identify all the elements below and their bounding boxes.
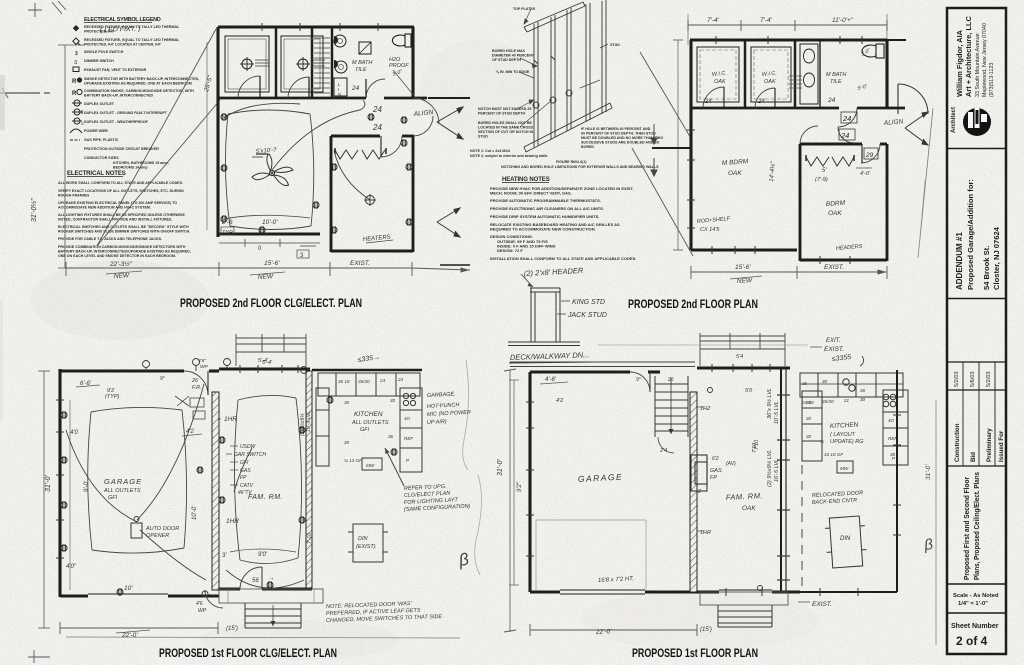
scan smudges: [30, 260, 210, 340]
svg-text:EXIST.: EXIST.: [350, 260, 370, 267]
svg-text:2 of 4: 2 of 4: [956, 634, 988, 648]
outer wall left: [216, 27, 219, 237]
svg-text:OAK: OAK: [828, 210, 842, 217]
svg-text:22'-0': 22'-0': [121, 632, 138, 639]
bath door arc TR: [838, 108, 857, 127]
svg-text:4'6: 4'6: [196, 601, 203, 607]
svg-text:POWER WIRE: POWER WIRE: [84, 129, 109, 133]
kitchen left column BR: [802, 391, 822, 461]
svg-text:KING STD: KING STD: [572, 299, 605, 306]
famrm right hatched wall BL: [306, 371, 312, 589]
outer wall right upper (bath): [411, 27, 414, 98]
heating notes text: [490, 186, 636, 261]
svg-text:(15'): (15'): [226, 626, 238, 632]
svg-text:OAK: OAK: [764, 79, 776, 85]
svg-text:46"TV: 46"TV: [238, 490, 252, 496]
svg-text:FAM. RM.: FAM. RM.: [248, 494, 283, 501]
svg-text:NOTCH MUST NOT EXCEED 25: NOTCH MUST NOT EXCEED 25: [478, 107, 531, 111]
porch slab BR: [700, 592, 788, 605]
window marks TR bottom walls: [712, 246, 850, 264]
fold cross top left: [28, 3, 42, 17]
svg-text:56: 56: [252, 578, 259, 584]
closet divider wall 1: [275, 27, 278, 98]
famrm right wall window dashes BR: [777, 395, 790, 580]
svg-text:FP: FP: [710, 475, 717, 481]
svg-text:5'4: 5'4: [736, 354, 743, 360]
din table BL: [348, 524, 388, 562]
svg-text:ALL OUTLETS: ALL OUTLETS: [351, 420, 389, 426]
section arrows mid gap: [651, 124, 657, 176]
island BR: [837, 461, 853, 473]
svg-text:BATTERY BACK-UP, INTERCONNECTE: BATTERY BACK-UP, INTERCONNECTED/UPGRADE …: [58, 250, 191, 254]
svg-text:Art + Architecture, LLC: Art + Architecture, LLC: [964, 16, 973, 97]
svg-text:21: 21: [843, 398, 850, 403]
svg-text:30: 30: [806, 416, 812, 421]
svg-text:EXIST.: EXIST.: [824, 264, 844, 271]
svg-text:GARAGE: GARAGE: [104, 477, 142, 486]
garage interior faint storage line BR: [536, 520, 646, 590]
svg-text:MW: MW: [366, 463, 375, 468]
bottom dim line TR: [691, 266, 887, 279]
svg-text:36/30: 36/30: [358, 379, 370, 384]
svg-text:F.R.: F.R.: [192, 385, 202, 391]
svg-text:JACK STUD: JACK STUD: [567, 312, 607, 319]
bedroom door arc: [381, 136, 402, 157]
exit arc bottom BL: [205, 590, 223, 608]
svg-text:WP: WP: [198, 608, 207, 614]
svg-text:DUPLEX OUTLET: DUPLEX OUTLET: [84, 102, 115, 106]
svg-text:36 18: 36 18: [338, 379, 350, 384]
divider under dates row: [947, 389, 1006, 391]
svg-text:10'-5 LVL: 10'-5 LVL: [774, 401, 780, 424]
ceiling wire loop mbdrm: [225, 110, 313, 230]
svg-text:ACCOMMODATE NEW ADDITION AND H: ACCOMMODATE NEW ADDITION AND HVAC SYSTEM…: [58, 206, 151, 210]
entry door arc BR: [630, 372, 650, 392]
leader line to TR plan upper: [640, 52, 692, 140]
svg-text:OAK: OAK: [742, 505, 756, 512]
svg-text:16'-5 LVL: 16'-5 LVL: [774, 459, 780, 482]
svg-text:10'-0': 10'-0': [192, 505, 198, 520]
hatch strip stairs: [314, 38, 330, 93]
svg-text:30: 30: [344, 400, 350, 405]
divider under scale section: [947, 612, 1006, 614]
garage window marks BR: [526, 402, 534, 556]
svg-text:ROCKER SWITCHES AND SLIDE DIMM: ROCKER SWITCHES AND SLIDE DIMMER SWITCHE…: [58, 230, 190, 234]
svg-text:(EXIST): (EXIST): [356, 544, 376, 550]
svg-text:TOP PLATES: TOP PLATES: [513, 7, 536, 11]
closet zigzag TR: [806, 157, 854, 166]
bath wall: [331, 27, 334, 98]
svg-text:EXIT.: EXIT.: [826, 338, 841, 344]
stud 2: [551, 15, 555, 139]
bottom dim line BL: [60, 622, 460, 638]
date column dividers: [962, 362, 964, 466]
svg-text:24: 24: [704, 99, 712, 105]
range circles BR: [883, 394, 889, 400]
closet1 door arc: [238, 76, 260, 98]
bath divider: [819, 40, 821, 108]
svg-text:ALL OUTLETS: ALL OUTLETS: [103, 488, 141, 494]
refer arrow BL: [385, 448, 404, 486]
entry door arc garage BL: [184, 371, 208, 395]
bottom wall ticks BR: [726, 588, 858, 596]
right exist wall BR: [896, 370, 898, 592]
svg-text:EXIST.: EXIST.: [824, 346, 844, 353]
svg-text:36: 36: [388, 434, 394, 439]
svg-text:DUPLEX OUTLET - GROUND FAULT I: DUPLEX OUTLET - GROUND FAULT INTERRUPT: [84, 111, 168, 115]
svg-text:24: 24: [840, 131, 849, 140]
svg-text:OAK: OAK: [728, 170, 742, 177]
svg-text:31'-0': 31'-0': [45, 475, 52, 492]
svg-text:LOCATED IN THE SAME CROSS: LOCATED IN THE SAME CROSS: [478, 126, 534, 130]
famrm top wall BL: [219, 368, 310, 371]
window marks garage left wall: [56, 400, 64, 558]
linen closet: [334, 78, 347, 96]
famrm bottom door arc BL: [240, 567, 262, 589]
small panel boxes near entry: [175, 396, 205, 419]
svg-text:2: 2: [697, 489, 701, 495]
vanity basin 2: [335, 61, 347, 73]
1hr hatched wall BL: [212, 392, 219, 590]
svg-text:COMBINATION SMOKE, CARBON MONO: COMBINATION SMOKE, CARBON MONOXIDE DETEC…: [84, 89, 194, 93]
main room bottom wall TR: [691, 248, 797, 251]
notch marks: [534, 56, 555, 64]
receptacles TL plan: [221, 113, 227, 120]
left wall: [58, 369, 61, 597]
svg-text:William Figdor, AIA: William Figdor, AIA: [955, 29, 964, 97]
garage door opening line: [88, 593, 168, 595]
svg-text:¼: ¼: [820, 439, 824, 444]
svg-text:UP AIR): UP AIR): [427, 419, 447, 426]
wic divider 2: [794, 40, 797, 108]
closet2 door arc: [288, 77, 309, 98]
svg-text:PROVIDE FOR CABLE T.V. JACKS A: PROVIDE FOR CABLE T.V. JACKS AND TELEPHO…: [58, 237, 162, 241]
bdrm TR walls: [799, 144, 802, 261]
receptacle marks BR minimal: [708, 388, 763, 591]
svg-text:4'-0': 4'-0': [860, 171, 871, 177]
title block outer frame: [947, 8, 1006, 654]
bath door arc: [366, 79, 385, 98]
svg-text:29: 29: [865, 152, 874, 159]
svg-text:(TYP): (TYP): [105, 394, 120, 400]
svg-text:CATV: CATV: [240, 483, 254, 489]
svg-text:26/30: 26/30: [821, 399, 834, 404]
famrm window marks BR: [712, 364, 770, 372]
svg-text:GAS PIPE, PLASTIC: GAS PIPE, PLASTIC: [84, 138, 119, 142]
svg-text:ONE ON EACH LEVEL AND SMOKE DE: ONE ON EACH LEVEL AND SMOKE DETECTOR IN …: [58, 254, 176, 258]
crease curve middle: [463, 360, 469, 470]
svg-text:INSTALLATION SHALL CONFORM TO: INSTALLATION SHALL CONFORM TO ALL STATE …: [490, 256, 636, 261]
svg-text:OPENER: OPENER: [146, 533, 169, 539]
svg-text:Issued For: Issued For: [998, 430, 1005, 462]
fireplace BR: [691, 455, 707, 491]
corner diag marks: [52, 1, 66, 14]
svg-text:UPGRADE EXISTING AS REQUIRED,: UPGRADE EXISTING AS REQUIRED, ONE AT EAC…: [84, 82, 192, 86]
header frame detail: [508, 288, 580, 346]
svg-text:30: 30: [822, 379, 828, 384]
svg-text:4'0: 4'0: [70, 430, 78, 436]
svg-text:Plans, Proposed Ceiling/Elect.: Plans, Proposed Ceiling/Elect. Plans: [974, 472, 981, 580]
svg-text:15'-6': 15'-6': [264, 260, 280, 267]
stairs top BR: [655, 376, 688, 437]
svg-text:WP: WP: [200, 364, 209, 370]
svg-text:TYP: TYP: [222, 230, 233, 236]
switch stack labels BL: [234, 444, 266, 496]
svg-text:R: R: [72, 91, 77, 97]
svg-text:UPGRADE EXISTING ELECTRICAL PA: UPGRADE EXISTING ELECTRICAL PANEL (TO 20…: [58, 201, 177, 205]
svg-text:KITCHEN, BATHROOMS 15 amp,: KITCHEN, BATHROOMS 15 amp,: [113, 161, 169, 165]
svg-text:CX 14'5: CX 14'5: [700, 227, 720, 233]
hall door arc TL right: [413, 98, 439, 124]
wic1 door arc: [703, 87, 724, 108]
bedroom right wall: [412, 136, 415, 252]
stud 4: [586, 3, 590, 122]
svg-text:7'-10: 7'-10: [307, 533, 313, 544]
top wall tick marks TL: [262, 23, 378, 31]
svg-text:DIMMER SWITCH: DIMMER SWITCH: [84, 59, 114, 63]
svg-text:Closter, NJ 07624: Closter, NJ 07624: [992, 226, 1001, 290]
bottom wall right section BR: [800, 591, 897, 593]
svg-text:STUD: STUD: [610, 43, 620, 47]
svg-text:24: 24: [372, 123, 382, 132]
legend symbols column: [70, 25, 84, 140]
stud 5: [602, 0, 606, 114]
svg-text:R: R: [72, 79, 77, 85]
svg-text:6'2: 6'2: [712, 456, 719, 462]
svg-text:9°: 9°: [636, 377, 641, 383]
svg-text:31'-0': 31'-0': [497, 459, 504, 476]
wire arc left: [224, 103, 300, 118]
entry door arc right TR: [898, 84, 928, 114]
svg-text:24: 24: [379, 378, 386, 383]
closet divider wall 2: [311, 27, 314, 98]
svg-text:STUD: STUD: [478, 135, 488, 139]
refer note BL: [404, 484, 471, 513]
counter labels BL: [338, 377, 414, 468]
svg-text:PROVIDE DRIP SYSTEM AUTOMATIC: PROVIDE DRIP SYSTEM AUTOMATIC HUMIDIFIER…: [490, 214, 599, 219]
svg-text:30: 30: [806, 434, 812, 439]
svg-text:10'-0': 10'-0': [262, 219, 278, 226]
svg-text:REF: REF: [404, 436, 414, 441]
svg-text:GAS: GAS: [240, 468, 251, 474]
svg-text:4'2: 4'2: [186, 429, 194, 435]
svg-text:PROPOSED 1st FLOOR CLG/ELECT.: PROPOSED 1st FLOOR CLG/ELECT. PLAN: [159, 646, 337, 660]
deck above famrm BR: [700, 333, 785, 366]
svg-text:NOTE 1: Cut = 2x4 MAX: NOTE 1: Cut = 2x4 MAX: [470, 149, 511, 153]
svg-text:2'-6: 2'-6: [221, 219, 233, 226]
svg-text:( LED FIXT. ): ( LED FIXT. ): [100, 26, 141, 34]
svg-text:DUPLEX OUTLET - WEATHERPROOF: DUPLEX OUTLET - WEATHERPROOF: [84, 120, 149, 124]
leader line from legend to plan lower: [97, 100, 220, 246]
electrical notes paragraphs: [58, 181, 191, 258]
window marks famrm top BL: [240, 365, 298, 373]
svg-text:EXIST.: EXIST.: [812, 601, 832, 608]
svg-text:PROOF: PROOF: [389, 63, 409, 69]
framing leader arrows: [515, 9, 608, 127]
svg-text:PERCENT OF STUD DEPTH: PERCENT OF STUD DEPTH: [478, 112, 526, 116]
svg-text:30: 30: [860, 397, 866, 402]
legend rows text: [84, 25, 199, 170]
svg-text:ADDENDUM #1: ADDENDUM #1: [955, 232, 964, 290]
famrm walls BR: [697, 368, 800, 592]
svg-text:Preliminary: Preliminary: [986, 428, 993, 462]
svg-text:7'10: 7'10: [752, 442, 758, 453]
stud 3: [567, 8, 571, 131]
famrm bottom wall BL: [219, 588, 240, 591]
stairs bottom BR: [718, 605, 772, 627]
svg-text:S: S: [81, 121, 84, 126]
svg-text:(7'-9): (7'-9): [815, 177, 828, 183]
svg-text:10'-3 LVL: 10'-3 LVL: [306, 411, 312, 432]
kitchen top counter BL: [316, 373, 422, 472]
closet zigzag TL: [335, 150, 385, 159]
famrm wiring loop BL: [226, 395, 304, 588]
svg-text:BDRM: BDRM: [826, 200, 846, 208]
kitchen right column BR: [883, 390, 908, 465]
svg-text:PROTECTED, IHT LOCATED AT CENT: PROTECTED, IHT LOCATED AT CENTER, IHT: [84, 43, 162, 47]
closet2 light fixture: [296, 57, 325, 71]
svg-text:SUCCESSIVE STUDS ARE DOUBLED A: SUCCESSIVE STUDS ARE DOUBLED AND SO: [581, 141, 660, 145]
svg-text:TILE: TILE: [355, 67, 367, 73]
svg-text:1/4" = 1'-0": 1/4" = 1'-0": [958, 601, 988, 607]
framing labels: [470, 7, 663, 169]
svg-text:4'6": 4'6": [198, 358, 206, 364]
svg-text:PROTECTION OUTSIDE CIRCUIT BRE: PROTECTION OUTSIDE CIRCUIT BREAKER: [84, 147, 159, 151]
svg-text:KITCHEN: KITCHEN: [354, 411, 383, 418]
svg-text:BORED: BORED: [581, 145, 594, 149]
garage wiring loop BL: [66, 384, 206, 580]
bedroom ceiling outlet: [364, 194, 376, 206]
svg-text:30: 30: [806, 400, 812, 405]
deck rail above famrm BL: [236, 334, 306, 366]
inner dim line TL left: [206, 42, 208, 230]
svg-text:PROVIDE ELECTRONIC AIR CLEANER: PROVIDE ELECTRONIC AIR CLEANERS ON ALL A…: [490, 206, 604, 211]
small arcs at stair base BR: [658, 437, 674, 453]
bored hole marks: [533, 102, 539, 108]
svg-text:Maplewood, New Jersey 07040: Maplewood, New Jersey 07040: [982, 23, 988, 97]
svg-text:RECESSED FIXTURE, EQUAL TO TAL: RECESSED FIXTURE, EQUAL TO TALLY LED THE…: [84, 38, 180, 42]
svg-text:5/2/03: 5/2/03: [954, 371, 960, 387]
svg-text:1HR: 1HR: [226, 518, 239, 525]
svg-text:PROVIDE COMBINATION CARBON MON: PROVIDE COMBINATION CARBON MONOXIDE/SMOK…: [58, 245, 186, 249]
svg-text:9'-0': 9'-0': [84, 480, 90, 492]
svg-text:DESIGN: 72 F: DESIGN: 72 F: [497, 248, 523, 253]
wic1 inner rect: [697, 47, 739, 102]
wall stub right of TL plan: [428, 97, 470, 99]
svg-text:30: 30: [344, 440, 350, 445]
walkway lines above garage BR: [510, 362, 695, 367]
svg-text:24: 24: [351, 85, 360, 92]
svg-text:(973)513-1123: (973)513-1123: [989, 63, 995, 97]
svg-text:5'-4': 5'-4': [262, 360, 273, 366]
arrow cross lower right TL: [437, 208, 460, 237]
svg-text:GFI: GFI: [108, 495, 118, 501]
closet1 inner rect: [225, 36, 269, 92]
svg-text:22'-3½": 22'-3½": [109, 260, 133, 268]
relocated note BL: [326, 601, 443, 624]
svg-text:26: 26: [667, 377, 674, 383]
bdrm door arc TR: [861, 144, 880, 163]
svg-text:⅝ IN. MIN TO EDGE: ⅝ IN. MIN TO EDGE: [496, 70, 530, 74]
1hr hatched wall BR: [690, 392, 697, 592]
leader line to TR plan lower: [632, 148, 693, 256]
svg-text:Scale - As Noted: Scale - As Noted: [953, 593, 999, 599]
svg-text:DIN: DIN: [358, 536, 368, 542]
svg-text:OF STUD DEPTH: OF STUD DEPTH: [492, 58, 521, 62]
svg-text:PROPOSED 2nd FLOOR PLAN: PROPOSED 2nd FLOOR PLAN: [628, 297, 758, 311]
svg-text:4O: 4O: [888, 418, 895, 423]
svg-text:11'-0'+": 11'-0'+": [832, 17, 854, 24]
bottom left fold mark: [28, 650, 50, 663]
svg-text:4'2: 4'2: [556, 398, 563, 404]
island mw BL: [362, 458, 382, 470]
svg-text:4'-6': 4'-6': [545, 377, 557, 383]
arcs to opener: [66, 384, 206, 580]
svg-text:UPDATE) RG: UPDATE) RG: [830, 439, 864, 445]
svg-text:SECTION OF CUT OR NOTCH IN: SECTION OF CUT OR NOTCH IN: [478, 130, 534, 134]
auto door opener: [131, 523, 142, 538]
svg-text:24: 24: [757, 99, 765, 105]
outer wall left TR: [689, 40, 692, 250]
left edge dash mark: [0, 92, 50, 94]
svg-text:31'-0½": 31'-0½": [30, 198, 38, 222]
svg-text:AUTO DOOR: AUTO DOOR: [145, 526, 179, 532]
svg-text:GFI: GFI: [240, 460, 249, 466]
svg-text:PROPOSED 1st FLOOR PLAN: PROPOSED 1st FLOOR PLAN: [632, 646, 758, 660]
top dim line TR: [688, 14, 887, 45]
garage walls BR: [530, 372, 697, 594]
svg-text:Construction: Construction: [954, 423, 961, 462]
svg-text:USDW: USDW: [240, 444, 257, 450]
svg-text:60 PERCENT OF STUD DEPTH, THEN: 60 PERCENT OF STUD DEPTH, THEN STUD: [581, 132, 656, 136]
main room bottom wall: [218, 232, 320, 235]
middle vertical dim between bottom plans: [463, 360, 516, 632]
svg-text:N: N: [338, 92, 341, 97]
wall sconce dots: [334, 36, 338, 44]
right sheet dim line: [935, 400, 937, 645]
top wall ticks TR: [716, 36, 862, 44]
kitchen right column BL: [400, 388, 422, 472]
top plate beam: [524, 2, 585, 32]
svg-text:TILE: TILE: [830, 79, 842, 85]
lower dim ticks TL: [219, 239, 320, 247]
window marks TR left wall: [687, 130, 695, 228]
svg-text:MW: MW: [840, 466, 849, 471]
svg-text:BORED HOLE MAX: BORED HOLE MAX: [492, 49, 526, 53]
svg-text:5'0: 5'0: [745, 388, 753, 394]
garbage notes BL: [427, 392, 471, 426]
svg-text:( LAYOUT: ( LAYOUT: [830, 432, 856, 438]
svg-text:BORED HOLES SHALL NOT BE: BORED HOLES SHALL NOT BE: [478, 121, 532, 125]
right wall upper TR: [885, 40, 888, 108]
bottom dimension line TL: [66, 262, 470, 276]
svg-text:Architect: Architect: [951, 107, 957, 133]
kitchen top wall BL: [312, 369, 422, 372]
wic2 inner rect: [751, 47, 791, 102]
wall stub left TR: [652, 147, 691, 149]
closet1 light fixture: [240, 57, 269, 71]
svg-text:¼ 13 GF: ¼ 13 GF: [344, 458, 363, 463]
vertical dim line far left: [58, 45, 85, 268]
svg-text:VERIFY EXACT LOCATIONS OF ALL: VERIFY EXACT LOCATIONS OF ALL OUTLETS, S…: [58, 189, 184, 193]
ceiling fan TL: [252, 154, 293, 186]
svg-text:NOTE 2: subject to exterior an: NOTE 2: subject to exterior and bearing …: [470, 154, 547, 158]
svg-text:1HR: 1HR: [224, 416, 237, 423]
bedroom TL walls: [331, 136, 414, 252]
svg-text:$: $: [74, 51, 78, 57]
svg-text:54 Brook St.: 54 Brook St.: [982, 246, 991, 290]
din table BR: [824, 516, 867, 569]
